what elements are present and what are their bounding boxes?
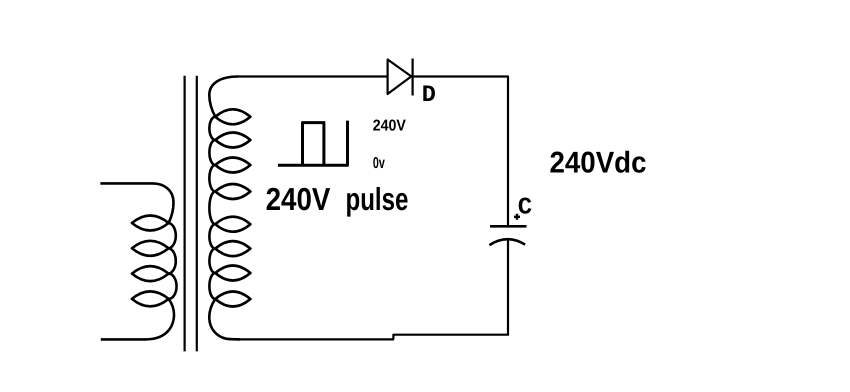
wire diode cathode to top-right corner and down to capacitor	[414, 77, 508, 226]
capacitor C bottom curved plate	[489, 239, 525, 245]
wire bottom right segment	[393, 335, 509, 340]
svg-text:240Vdc: 240Vdc	[550, 147, 647, 180]
diode D triangle	[388, 60, 412, 95]
transformer core line right	[196, 76, 198, 352]
transformer secondary winding L2	[209, 77, 250, 340]
diode D cathode bar	[412, 59, 414, 96]
svg-text:C: C	[518, 195, 532, 222]
capacitor plus polarity mark	[514, 214, 520, 220]
transformer primary winding L1	[100, 183, 176, 339]
svg-text:pulse: pulse	[346, 181, 409, 217]
wire bottom left segment (to secondary)	[236, 338, 394, 340]
svg-text:0v: 0v	[373, 155, 385, 172]
wire capacitor to bottom-right corner	[507, 240, 509, 335]
transformer core line left	[184, 76, 186, 352]
capacitor C top plate	[490, 225, 527, 228]
svg-text:D: D	[422, 82, 436, 109]
svg-text:240V: 240V	[266, 181, 331, 217]
pulse waveform icon	[278, 121, 348, 166]
wire top (secondary top to diode anode)	[236, 75, 388, 77]
svg-text:240V: 240V	[373, 117, 407, 134]
